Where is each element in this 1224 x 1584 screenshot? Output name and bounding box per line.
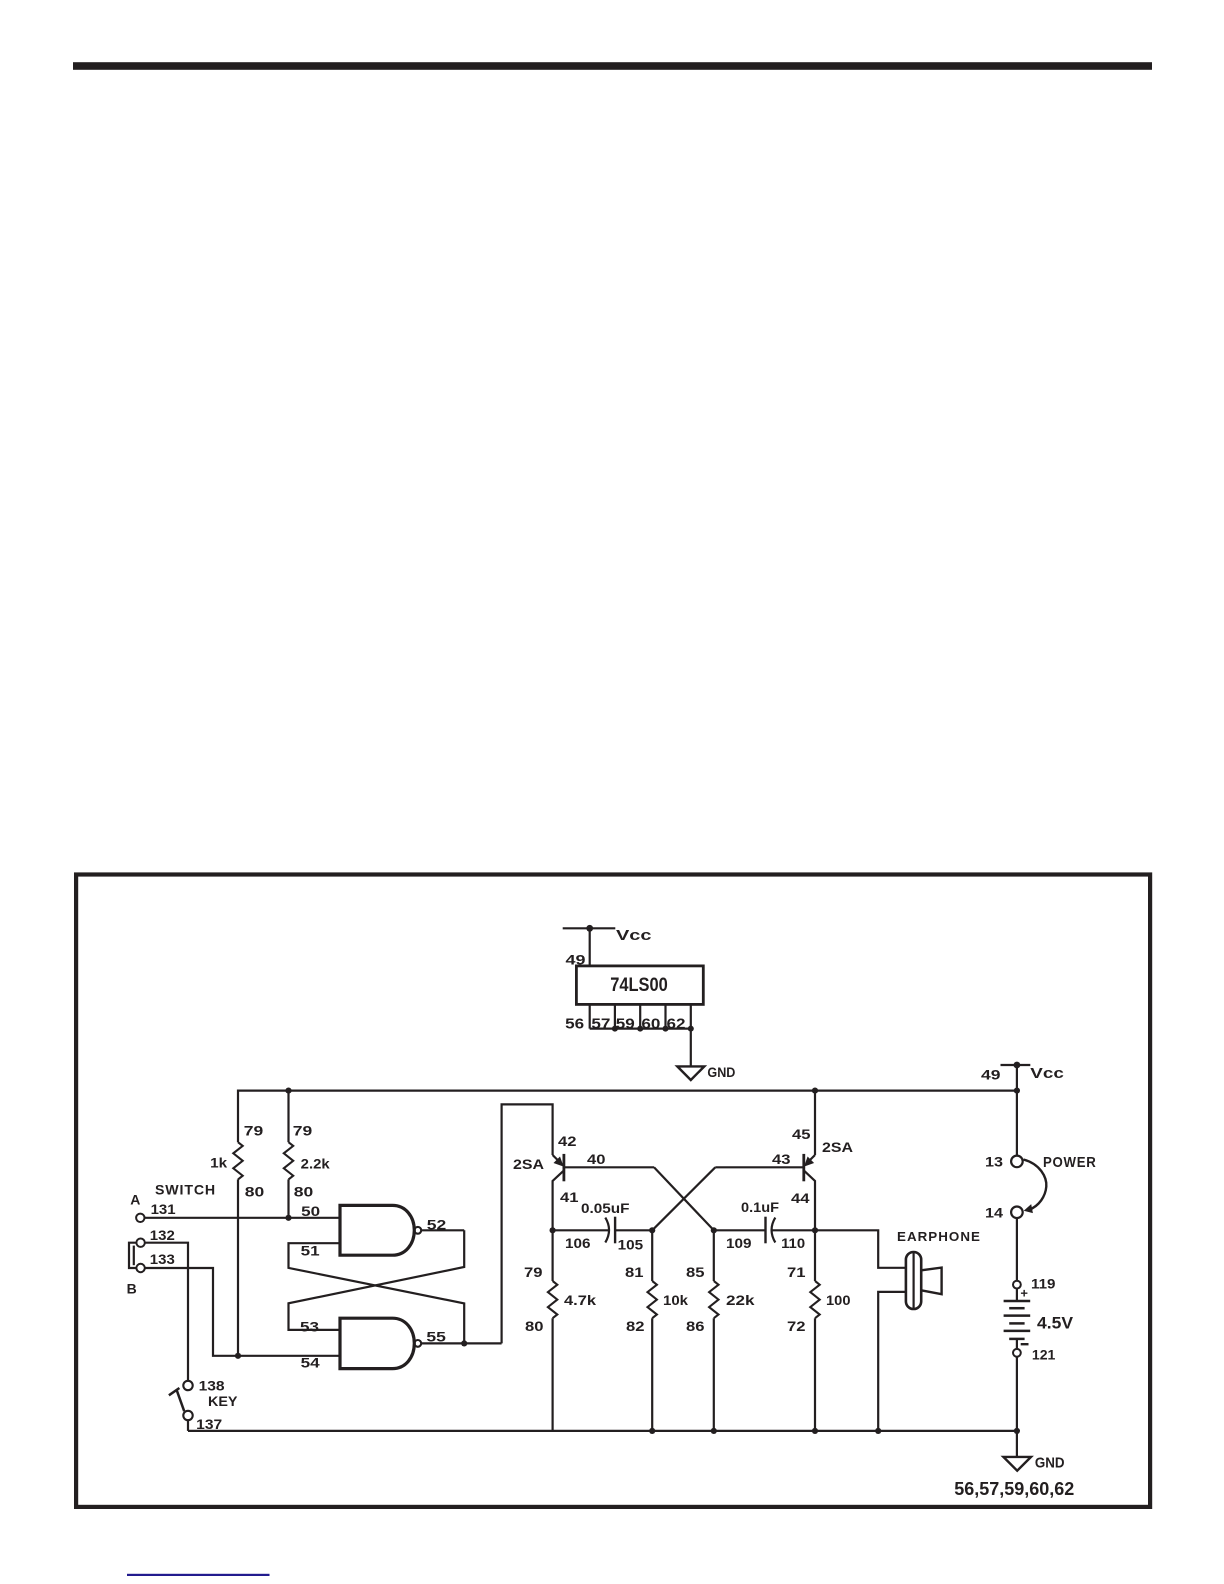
svg-text:10k: 10k — [663, 1292, 688, 1308]
wire 137 to bottom rail — [187, 1420, 189, 1431]
wire 106 to capacitor C1 — [553, 1229, 610, 1231]
wire output 55 — [421, 1342, 501, 1344]
svg-text:80: 80 — [245, 1184, 265, 1200]
NAND gate U1a — [340, 1205, 414, 1255]
svg-text:B: B — [127, 1280, 137, 1296]
svg-text:62: 62 — [667, 1016, 686, 1032]
svg-text:74LS00: 74LS00 — [610, 975, 668, 996]
wire C1 to node 105 — [615, 1229, 652, 1231]
node dot pin 60 — [663, 1026, 669, 1032]
wire diagonal 40 to node 109 — [654, 1167, 714, 1230]
wire 132 to key — [145, 1243, 188, 1381]
wire ground bus under 74LS00 — [590, 1027, 691, 1029]
node dot earphone / rail — [875, 1428, 881, 1434]
terminal circle 133 — [136, 1264, 144, 1272]
resistor R3 4.7k — [548, 1281, 557, 1318]
wire 121 to bottom rail — [1016, 1357, 1018, 1431]
wire Vcc stub right — [1001, 1064, 1031, 1066]
NAND gate U1b — [340, 1318, 414, 1368]
svg-text:85: 85 — [686, 1264, 705, 1280]
node dot 105 — [649, 1227, 655, 1233]
wire Q2 base node 43 — [715, 1166, 804, 1168]
svg-text:138: 138 — [199, 1378, 225, 1394]
svg-text:Vcc: Vcc — [1030, 1066, 1064, 1082]
svg-text:A: A — [130, 1191, 140, 1207]
svg-text:82: 82 — [626, 1318, 645, 1334]
IC U1 74LS00 body — [576, 966, 703, 1005]
power plug arrowhead — [1024, 1204, 1033, 1213]
wire 100 top lead — [814, 1230, 816, 1281]
svg-text:EARPHONE: EARPHONE — [897, 1229, 981, 1244]
transistor Q1 emitter arrow — [554, 1157, 562, 1165]
wire output 52 — [421, 1229, 464, 1231]
wire 133 to node 54 — [145, 1268, 340, 1356]
battery terminal circle 119 — [1013, 1281, 1021, 1289]
wire 55 loop to Q1 emitter — [502, 1104, 553, 1343]
terminal circle 132 — [136, 1239, 144, 1247]
svg-text:2SA: 2SA — [513, 1156, 544, 1172]
svg-text:56,57,59,60,62: 56,57,59,60,62 — [954, 1479, 1074, 1499]
svg-text:79: 79 — [293, 1122, 313, 1138]
wire node 110 to earphone top — [815, 1230, 906, 1268]
wire earphone bottom to rail — [878, 1292, 906, 1431]
svg-text:+: + — [1020, 1285, 1028, 1300]
transistor Q1 collector diagonal — [553, 1171, 564, 1231]
wire Vcc stub (74LS00) — [563, 927, 616, 929]
svg-text:109: 109 — [726, 1235, 752, 1251]
svg-text:4.7k: 4.7k — [564, 1292, 596, 1308]
resistor R5 22k — [709, 1281, 718, 1318]
node dot 50 / 2.2k — [285, 1215, 291, 1221]
svg-text:80: 80 — [294, 1184, 314, 1200]
transistor Q2 emitter diagonal — [809, 1155, 815, 1161]
key switch lever — [177, 1390, 184, 1411]
svg-text:0.1uF: 0.1uF — [741, 1199, 779, 1215]
wire bus to ground symbol — [690, 1029, 692, 1067]
schematic border frame — [76, 875, 1150, 1507]
node dot 100 / rail — [812, 1428, 818, 1434]
svg-text:40: 40 — [587, 1151, 606, 1167]
svg-text:81: 81 — [625, 1264, 644, 1280]
svg-text:0.05uF: 0.05uF — [581, 1200, 630, 1216]
svg-text:110: 110 — [781, 1235, 805, 1251]
svg-text:2SA: 2SA — [822, 1139, 853, 1155]
svg-text:132: 132 — [150, 1227, 175, 1243]
hyperlink rule (bottom of page) — [127, 1574, 270, 1576]
node dot pin 57 — [612, 1026, 618, 1032]
wire diagonal 43 to node 105 — [652, 1167, 715, 1230]
svg-text:41: 41 — [560, 1189, 579, 1205]
wire 100 bottom lead — [814, 1318, 816, 1431]
svg-text:54: 54 — [301, 1355, 320, 1371]
wire node 50 from switch A to gate U1a — [145, 1217, 341, 1219]
svg-text:Vcc: Vcc — [616, 928, 652, 944]
wire C2 to node 110 — [771, 1229, 815, 1231]
bubble U1a output — [414, 1227, 421, 1234]
node dot rail / Vcc column — [1014, 1088, 1020, 1094]
ground symbol (74LS00) — [677, 1066, 704, 1080]
earphone cone — [921, 1268, 941, 1295]
wire 1k top lead — [237, 1090, 239, 1143]
svg-text:60: 60 — [641, 1016, 660, 1032]
resistor R6 100 — [810, 1281, 819, 1318]
wire bottom ground rail — [188, 1430, 1017, 1432]
svg-text:GND: GND — [1035, 1455, 1065, 1472]
wire pin 62 — [690, 1004, 692, 1028]
node dot rail / 2.2k — [285, 1088, 291, 1094]
svg-text:86: 86 — [686, 1318, 705, 1334]
svg-text:SWITCH: SWITCH — [155, 1182, 216, 1197]
node Vcc junction dot (74LS00) — [586, 925, 593, 932]
wire rail to ground symbol — [1016, 1431, 1018, 1457]
terminal circle 131 — [136, 1214, 144, 1222]
svg-text:80: 80 — [525, 1318, 544, 1334]
svg-text:50: 50 — [301, 1203, 320, 1219]
wire 14 to battery — [1016, 1218, 1018, 1281]
node dot pin 59 — [637, 1026, 643, 1032]
ground symbol (bottom) — [1003, 1457, 1031, 1471]
transistor Q1 emitter diagonal — [553, 1155, 559, 1161]
top rule bar — [73, 62, 1152, 70]
svg-text:45: 45 — [792, 1126, 811, 1142]
transistor Q2 base bar — [802, 1154, 805, 1181]
wire pin 49 to 74LS00 — [589, 928, 591, 966]
transistor Q2 emitter arrow — [805, 1157, 813, 1165]
svg-text:POWER: POWER — [1043, 1154, 1097, 1171]
battery terminal circle 121 — [1013, 1349, 1021, 1357]
wire 2.2k top lead — [287, 1091, 289, 1143]
svg-text:1k: 1k — [210, 1155, 227, 1171]
svg-text:131: 131 — [151, 1201, 176, 1217]
svg-text:105: 105 — [618, 1237, 644, 1253]
svg-text:137: 137 — [196, 1416, 222, 1432]
capacitor C2 straight plate — [764, 1217, 766, 1244]
svg-text:133: 133 — [150, 1251, 175, 1267]
svg-text:72: 72 — [787, 1318, 806, 1334]
wire 1k bottom lead to node 54 — [237, 1179, 239, 1355]
svg-text:53: 53 — [300, 1319, 319, 1335]
transistor Q2 collector diagonal — [804, 1171, 815, 1231]
node dot 54 / 1k — [235, 1353, 241, 1359]
node dot rail / Q2 emitter — [812, 1088, 818, 1094]
resistor R4 10k — [648, 1281, 657, 1318]
svg-text:100: 100 — [826, 1292, 851, 1308]
wire pin 57 — [614, 1004, 616, 1028]
wire input 51 feedback from output 55 — [289, 1243, 465, 1343]
wire pin 59 — [639, 1004, 641, 1028]
node dot bottom rail / ground column — [1014, 1428, 1020, 1434]
jack bracket B — [129, 1243, 137, 1268]
svg-text:59: 59 — [616, 1016, 635, 1032]
wire 109 to capacitor C2 — [714, 1229, 766, 1231]
capacitor C1 straight plate — [614, 1217, 616, 1244]
jack bracket inner line — [133, 1246, 135, 1266]
svg-text:121: 121 — [1032, 1347, 1056, 1363]
transistor Q1 base bar — [563, 1154, 566, 1181]
node dot pin 62 — [688, 1026, 694, 1032]
svg-text:22k: 22k — [726, 1292, 755, 1308]
key switch terminal circle 137 — [183, 1411, 192, 1420]
svg-text:44: 44 — [791, 1190, 810, 1206]
svg-text:106: 106 — [565, 1235, 591, 1251]
wire Q2 emitter from rail — [814, 1091, 816, 1155]
svg-text:13: 13 — [985, 1154, 1003, 1170]
earphone center line — [912, 1252, 914, 1309]
wire top Vcc rail — [238, 1089, 1017, 1091]
svg-text:57: 57 — [591, 1016, 610, 1032]
svg-text:43: 43 — [772, 1151, 791, 1167]
svg-text:GND: GND — [707, 1064, 735, 1080]
svg-text:42: 42 — [558, 1133, 577, 1149]
node dot 109 — [711, 1227, 717, 1233]
key switch lever handle — [169, 1388, 180, 1395]
node dot 10k / rail — [649, 1428, 655, 1434]
label minus — [1021, 1343, 1029, 1345]
svg-text:KEY: KEY — [208, 1393, 238, 1409]
wire 10k top lead — [651, 1230, 653, 1281]
node dot 110 (Q2 collector) — [812, 1227, 818, 1233]
wire 2.2k bottom lead — [287, 1179, 289, 1217]
resistor R2 2.2k — [284, 1142, 293, 1179]
svg-text:119: 119 — [1031, 1275, 1056, 1291]
resistor R1 1k — [233, 1142, 242, 1179]
wire 22k top lead — [713, 1230, 715, 1281]
wire 119 to battery top — [1016, 1289, 1018, 1302]
wire 10k bottom lead — [651, 1318, 653, 1431]
power plug circle 13 — [1011, 1156, 1023, 1168]
svg-text:79: 79 — [244, 1122, 264, 1138]
battery B1 plates — [1004, 1301, 1031, 1339]
wire feedback 52 to input 53 — [289, 1230, 465, 1330]
svg-text:4.5V: 4.5V — [1037, 1313, 1074, 1332]
power plug arc arrow — [1024, 1160, 1047, 1210]
power plug circle 14 — [1011, 1207, 1023, 1219]
node dot 22k / rail — [711, 1428, 717, 1434]
svg-text:71: 71 — [787, 1264, 806, 1280]
capacitor C2 curved plate — [772, 1218, 776, 1243]
wire battery bottom to 121 — [1016, 1339, 1018, 1349]
svg-text:14: 14 — [985, 1205, 1003, 1221]
svg-text:49: 49 — [981, 1067, 1001, 1083]
node dot 106 (Q1 collector) — [550, 1227, 556, 1233]
svg-text:56: 56 — [565, 1016, 584, 1032]
wire Vcc column to power plug — [1016, 1065, 1018, 1156]
capacitor C1 curved plate — [605, 1218, 609, 1243]
key switch terminal circle 138 — [183, 1381, 192, 1390]
wire Q1 base node 40 — [564, 1166, 654, 1168]
wire 22k bottom lead — [713, 1318, 715, 1431]
svg-text:55: 55 — [426, 1329, 446, 1345]
node dot 55 — [461, 1340, 467, 1346]
node dot Vcc right — [1014, 1062, 1021, 1069]
bubble U1b output — [414, 1340, 421, 1347]
svg-text:2.2k: 2.2k — [301, 1156, 330, 1172]
earphone body pill — [906, 1252, 921, 1309]
svg-text:79: 79 — [524, 1264, 543, 1280]
wire 4.7k top lead — [551, 1230, 553, 1281]
wire 4.7k bottom lead — [551, 1318, 553, 1431]
svg-text:51: 51 — [301, 1242, 320, 1258]
wire pin 60 — [664, 1004, 666, 1028]
wire pin 56 — [589, 1004, 591, 1028]
